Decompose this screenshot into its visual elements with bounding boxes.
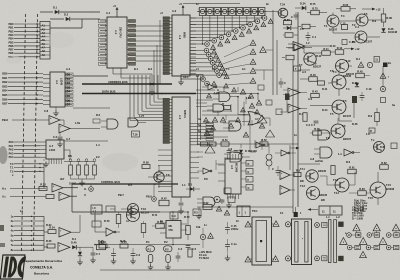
IC U5 left pin 3 xyxy=(163,107,172,110)
IC U5 right wire 5 xyxy=(190,138,213,140)
wire U8 out xyxy=(71,215,80,232)
IC U4 left pins xyxy=(218,165,225,181)
wire matrix row 3 xyxy=(190,27,240,29)
IC U2 right pin 21 xyxy=(190,24,196,26)
IC U5 left pin low 5 xyxy=(158,175,172,177)
svg-text:C.6: C.6 xyxy=(136,253,141,257)
label C.7 xyxy=(96,252,101,256)
svg-text:L.5: L.5 xyxy=(300,27,304,31)
capacitor C27 xyxy=(225,222,230,234)
warning triangle u4b xyxy=(224,210,229,215)
svg-text:M.56: M.56 xyxy=(284,18,290,22)
IC U5 left pin 12 xyxy=(163,135,172,138)
svg-text:DB2: DB2 xyxy=(2,80,8,84)
svg-text:A-2: A-2 xyxy=(172,9,177,13)
svg-text:D: D xyxy=(370,129,372,133)
wire +12 arrow mid xyxy=(344,47,360,51)
svg-text:T.11: T.11 xyxy=(300,167,305,171)
svg-text:R.6: R.6 xyxy=(346,160,351,164)
wire right v1 xyxy=(353,103,355,118)
IC U5 right label boxes xyxy=(206,123,214,141)
wire matrix row 2 xyxy=(190,24,248,26)
connector pin-label box column A1-A10 xyxy=(40,22,50,60)
svg-text:P.2: P.2 xyxy=(165,247,169,251)
svg-text:R.11: R.11 xyxy=(316,54,322,58)
LED extra b xyxy=(205,81,210,86)
label PA0 xyxy=(9,140,14,144)
warning triangle chain xyxy=(250,78,256,83)
opto-module K1 top row xyxy=(198,8,207,16)
svg-text:R.9: R.9 xyxy=(368,114,373,118)
IC U1 right pin 16 xyxy=(127,43,136,46)
wire bus seg v3 xyxy=(153,50,155,84)
label C.3 xyxy=(178,247,183,251)
svg-text:BD137: BD137 xyxy=(313,65,322,69)
wire connector row DB0 xyxy=(8,73,43,74)
wire U1 to U2 2 xyxy=(135,35,163,37)
label P.2 xyxy=(164,240,168,244)
power +5V IC U1 xyxy=(113,4,118,17)
connector J1 dashed strip right line xyxy=(34,14,38,252)
logo letters xyxy=(3,257,26,278)
svg-text:R.71: R.71 xyxy=(152,213,158,217)
circle legB3 xyxy=(386,233,391,238)
inverter U23 xyxy=(256,142,265,148)
junction dots buses xyxy=(129,93,163,95)
inverter U34 xyxy=(197,168,212,174)
svg-text:LS04: LS04 xyxy=(49,148,56,152)
resistor R11 xyxy=(318,47,330,55)
svg-text:T.15: T.15 xyxy=(368,196,373,200)
opto-module K6 top row xyxy=(235,8,244,16)
warning triangle legA1 xyxy=(353,224,360,231)
svg-text:R.11: R.11 xyxy=(323,47,329,51)
label 1.2 xyxy=(306,41,310,45)
warning triangle legC3 xyxy=(379,238,387,245)
label PB8 xyxy=(2,118,8,122)
wire rail x293 xyxy=(292,60,294,213)
IC U5 left pin 8 xyxy=(163,123,172,126)
wire U1 to U2 1 xyxy=(135,30,163,32)
transistor T6 xyxy=(331,124,352,141)
svg-text:T.5: T.5 xyxy=(364,12,368,16)
yoke bar 1 xyxy=(328,220,331,263)
label VS xyxy=(2,195,6,199)
svg-text:A8: A8 xyxy=(42,49,46,53)
IC U6 left pin 2 xyxy=(40,149,46,151)
transformer TR1 mark xyxy=(260,240,262,242)
wire mid h5 xyxy=(205,130,236,132)
label PA4 xyxy=(9,155,14,159)
label K5 xyxy=(11,238,14,242)
box legB2 xyxy=(372,233,380,237)
triangle sym b xyxy=(205,145,215,153)
yoke bar 2 xyxy=(334,220,337,263)
svg-text:R.45: R.45 xyxy=(314,127,320,131)
label 4a xyxy=(198,117,201,121)
IC U2 left pin 4 xyxy=(163,26,172,29)
svg-text:555: 555 xyxy=(169,228,174,232)
scan smudge left2 xyxy=(6,56,22,64)
IC U3 right pin 3 xyxy=(65,85,73,89)
circle legB1 xyxy=(347,233,352,238)
wire T6 c xyxy=(337,118,339,124)
resistor R56 xyxy=(142,161,150,169)
wire T5b base xyxy=(310,105,332,107)
bus ADDRESS xyxy=(82,80,172,84)
wire top row to T34 xyxy=(277,12,279,14)
label 1c xyxy=(196,2,199,6)
triangle sym a xyxy=(257,115,267,123)
vertical trimmer RV4 xyxy=(166,255,171,266)
transistor T17 xyxy=(128,204,139,215)
warning triangle chain xyxy=(250,68,256,73)
wire matrix column 0 xyxy=(261,16,262,19)
bus verticals to IC5 xyxy=(130,75,158,120)
IC U5 left pin low 2 xyxy=(158,159,172,161)
svg-text:R.35: R.35 xyxy=(46,239,52,243)
IC U5 left pin 0 xyxy=(163,98,172,101)
warning triangle col1 xyxy=(380,73,389,79)
svg-text:BD135: BD135 xyxy=(343,74,352,78)
svg-text:D.8: D.8 xyxy=(380,145,385,149)
label F.1 xyxy=(280,211,284,215)
svg-text:R.13: R.13 xyxy=(337,46,343,50)
text list right xyxy=(352,206,365,221)
wire left v95 xyxy=(95,212,98,232)
label DB7 xyxy=(2,102,8,106)
D-box col 3 xyxy=(241,177,253,183)
wire x290 v xyxy=(289,145,291,170)
IC U2 left pin 11 xyxy=(163,49,172,52)
label R.11 xyxy=(316,54,322,58)
transistor T3 xyxy=(355,31,373,44)
resistor network RN1 xyxy=(69,159,73,179)
label A.5 xyxy=(302,70,307,74)
svg-text:A5: A5 xyxy=(42,38,46,42)
label A.6 xyxy=(308,97,313,101)
label D.4 xyxy=(72,237,77,241)
svg-text:!: ! xyxy=(369,63,370,67)
label R.75 xyxy=(310,2,316,6)
wire connector row TC1 xyxy=(14,167,44,168)
label DB2 xyxy=(2,80,8,84)
svg-text:R.41: R.41 xyxy=(322,87,328,91)
IC U5 right wire 3 xyxy=(190,132,213,134)
label PA3 xyxy=(9,151,14,155)
transistor T4 xyxy=(332,70,352,89)
oval resistor RV1 xyxy=(146,246,155,252)
scan mottle b xyxy=(46,32,74,48)
svg-text:C: C xyxy=(272,167,274,171)
IC U5 right wire 0 xyxy=(190,123,213,125)
IC U6 body xyxy=(46,140,64,159)
resistor R72 xyxy=(152,220,164,228)
label R.1 xyxy=(356,57,361,61)
svg-text:L.1: L.1 xyxy=(326,215,330,219)
wire mid h7 xyxy=(254,70,273,80)
svg-text:T.0: T.0 xyxy=(10,162,14,166)
label A-2 xyxy=(172,9,177,13)
svg-text:A-5: A-5 xyxy=(230,165,233,170)
wire LED row L5 xyxy=(190,70,215,72)
svg-text:1.27: 1.27 xyxy=(139,114,145,118)
IC U1 right pin 11 xyxy=(127,20,136,23)
text equipment list xyxy=(354,199,368,213)
ground C25 xyxy=(130,259,136,264)
LED matrix 7 xyxy=(212,38,217,43)
svg-text:R.47: R.47 xyxy=(161,196,167,200)
label x xyxy=(12,174,14,177)
svg-text:C.9: C.9 xyxy=(172,214,177,218)
D-box col 4 xyxy=(241,185,253,191)
svg-text:1.2: 1.2 xyxy=(306,41,310,45)
title text line1 xyxy=(24,259,63,263)
wire U1 to U2 5 xyxy=(135,50,163,52)
wire top rail y212 xyxy=(95,211,188,213)
svg-text:ADDRESS BUS: ADDRESS BUS xyxy=(108,80,128,84)
IC U4 bottom pins xyxy=(228,194,239,199)
diode D1 xyxy=(53,6,59,15)
label 2.2 xyxy=(96,155,100,159)
IC U3 right pin 5 xyxy=(65,94,73,98)
wire y144 xyxy=(197,143,298,145)
wire matrix row 1 xyxy=(190,20,255,22)
pin label box A1 xyxy=(40,24,50,28)
AND gate U27 xyxy=(93,119,118,129)
svg-text:D.3: D.3 xyxy=(188,183,193,187)
IC U1 left pin 9 xyxy=(99,57,108,60)
svg-text:MC1488: MC1488 xyxy=(235,163,238,173)
label 2a xyxy=(388,61,391,65)
wire connector pin row PB4 xyxy=(14,38,40,39)
IC U2 right pin 20 xyxy=(190,20,196,22)
label 1a xyxy=(20,209,23,213)
op-amp U19 xyxy=(280,186,295,195)
resistor R45 xyxy=(310,127,331,135)
svg-text:-: - xyxy=(53,189,54,192)
LED matrix 2 xyxy=(248,22,253,27)
ground IC U4 xyxy=(226,203,232,208)
svg-text:D.4: D.4 xyxy=(72,237,77,241)
svg-text:D2: D2 xyxy=(67,81,71,85)
wire matrix column 3 xyxy=(239,16,240,29)
transistor T10 xyxy=(336,59,355,76)
IC U3 left pin 5 xyxy=(43,95,50,97)
scan mark left b xyxy=(0,243,5,247)
svg-text:PB2: PB2 xyxy=(8,29,14,33)
resistor R18b xyxy=(282,55,294,60)
resistor R90 xyxy=(48,226,56,234)
label R.41 xyxy=(322,87,328,91)
svg-text:F.1: F.1 xyxy=(280,211,284,215)
label H. xyxy=(84,187,87,191)
diode D41 down xyxy=(78,247,82,256)
label 1z xyxy=(204,223,207,227)
wire bottom rail y270 xyxy=(100,269,200,271)
svg-text:R.2: R.2 xyxy=(96,113,101,117)
IC U1 right pin 12 xyxy=(127,24,136,27)
IC U2 left pin 6 xyxy=(163,33,172,36)
IC U1 right pin 20 xyxy=(127,62,136,65)
svg-text:A.8: A.8 xyxy=(310,157,315,161)
IC U2 right pin 19 xyxy=(190,17,196,19)
svg-text:A-3: A-3 xyxy=(178,115,182,120)
wire U1 to U2 0 xyxy=(135,25,163,27)
LED L30 xyxy=(200,228,205,248)
label PB7 xyxy=(8,48,14,52)
box small e xyxy=(228,197,235,203)
resistor R80 xyxy=(203,201,212,210)
label D.27 xyxy=(352,81,358,85)
IC U7 pin top xyxy=(172,211,173,220)
warning triangle chain xyxy=(250,49,256,54)
transistor T34 xyxy=(278,3,288,18)
svg-text:BD: BD xyxy=(321,198,325,202)
IC U1 left pin 3 xyxy=(99,29,108,32)
wire D40 out xyxy=(77,246,93,248)
label PB8 xyxy=(8,51,14,55)
svg-text:DB6: DB6 xyxy=(2,97,8,101)
wire IC U3 to right xyxy=(73,76,110,108)
scan smudge left xyxy=(0,146,8,164)
warning triangle matrix 1 xyxy=(261,22,266,27)
wire T18 base xyxy=(148,165,159,188)
label HS xyxy=(2,187,7,191)
wire U1 to U2 4 xyxy=(135,45,163,47)
wire drive b xyxy=(348,172,357,186)
transistor T2 xyxy=(356,12,368,26)
resistor R05 xyxy=(336,3,356,11)
IC U5 left pin low 7 xyxy=(158,185,172,187)
svg-text:9.1: 9.1 xyxy=(242,67,246,71)
wire right cluster f xyxy=(309,53,311,66)
svg-text:R.75: R.75 xyxy=(312,6,318,10)
svg-text:PB5: PB5 xyxy=(8,40,14,44)
LED L0 xyxy=(204,48,209,53)
wire vertical join bottom rows xyxy=(43,216,45,250)
svg-text:T.15: T.15 xyxy=(386,183,391,187)
resistor R92 xyxy=(97,241,106,250)
label K2 xyxy=(11,224,14,228)
svg-text:A3: A3 xyxy=(42,31,46,35)
svg-text:D6: D6 xyxy=(67,98,71,102)
wire hv line xyxy=(298,159,324,164)
wire mid mesh b xyxy=(224,87,238,92)
svg-text:A-1: A-1 xyxy=(106,11,111,15)
svg-text:DB5: DB5 xyxy=(2,93,8,97)
wire mid v2 xyxy=(230,97,244,126)
resistor R60 vertical xyxy=(331,166,335,175)
capacitor C1 decoupling xyxy=(150,74,155,90)
IC U5 left pin 9 xyxy=(163,126,172,129)
label A-4 xyxy=(66,67,71,71)
svg-text:R.43: R.43 xyxy=(312,90,318,94)
label T.7 xyxy=(299,63,303,67)
wire matrix column 2 xyxy=(246,16,247,26)
svg-text:C.19: C.19 xyxy=(366,87,372,91)
wire right cluster e xyxy=(304,46,318,53)
svg-text:C.7: C.7 xyxy=(96,252,101,256)
label T.3 xyxy=(352,40,356,44)
IC U5 left pin 6 xyxy=(163,117,172,120)
IC U5 right pin low 4 xyxy=(190,172,199,174)
wire VS row xyxy=(10,196,46,198)
wire connector pin row PB8 xyxy=(14,53,40,54)
IC U2 left pin 1 xyxy=(163,17,172,20)
label 1.1 xyxy=(182,183,186,187)
label R.70 xyxy=(104,219,110,223)
wire t-cluster b xyxy=(333,27,355,33)
LED PB7 xyxy=(89,184,94,191)
circle P xyxy=(214,196,220,202)
wire to diode D2 xyxy=(50,18,64,20)
ground C24 xyxy=(111,259,117,264)
triangle big mid xyxy=(260,47,266,53)
svg-text:L.2: L.2 xyxy=(336,215,340,219)
svg-text:4.7: 4.7 xyxy=(126,219,130,223)
svg-text:PA1: PA1 xyxy=(9,144,14,148)
wire right col xyxy=(382,66,384,87)
warning triangle legC1 xyxy=(340,238,348,245)
box small b xyxy=(106,206,115,212)
capacitor C29 xyxy=(91,247,96,258)
IC U2 left pin 3 xyxy=(163,23,172,26)
svg-text:+12: +12 xyxy=(376,8,381,12)
wire connector pin row PB1 xyxy=(14,27,40,28)
svg-text:DB1: DB1 xyxy=(2,76,8,80)
svg-text:D.24: D.24 xyxy=(300,2,306,6)
svg-text:PB3: PB3 xyxy=(8,33,14,37)
resistor col xyxy=(375,108,380,126)
warning triangle L3 xyxy=(218,62,223,67)
svg-text:BC107: BC107 xyxy=(343,114,352,118)
wire t-cluster c xyxy=(368,20,384,37)
label c xyxy=(372,232,374,235)
pin label box A9 xyxy=(40,53,50,57)
IC U5 left pin low 0 xyxy=(158,149,172,151)
opto-module K3 top row xyxy=(213,8,222,16)
resistor R53 xyxy=(294,169,301,177)
svg-text:PB4: PB4 xyxy=(8,37,14,41)
label tick xyxy=(0,0,1,1)
svg-text:R.46: R.46 xyxy=(352,122,358,126)
label C.5 xyxy=(192,247,197,251)
AND gate U31 xyxy=(314,147,332,158)
warning triangle g7 xyxy=(204,130,209,135)
wire matrix column 4 xyxy=(231,16,232,32)
label R.6 xyxy=(346,160,351,164)
label PB.7 xyxy=(118,193,124,197)
warning triangle fill xyxy=(241,108,246,112)
circle yoke tl xyxy=(315,223,320,228)
wire matrix row 4 xyxy=(190,30,233,32)
resistor R33 xyxy=(39,183,47,191)
svg-text:D: D xyxy=(248,162,250,166)
wire LED row L2 xyxy=(190,58,208,60)
IC U7 pin bottom xyxy=(172,238,174,244)
resistor R62 xyxy=(379,161,388,169)
IC U5 right wire 6 xyxy=(190,141,213,143)
label K7 xyxy=(11,248,14,252)
transistor T18 xyxy=(154,172,170,182)
label x2 xyxy=(196,74,199,78)
warning triangle L0 xyxy=(212,49,217,54)
wire fill c xyxy=(261,139,263,150)
circle legB2 xyxy=(367,233,372,238)
svg-text:-: - xyxy=(60,198,61,201)
wire connector pin row PB9 xyxy=(14,56,40,57)
